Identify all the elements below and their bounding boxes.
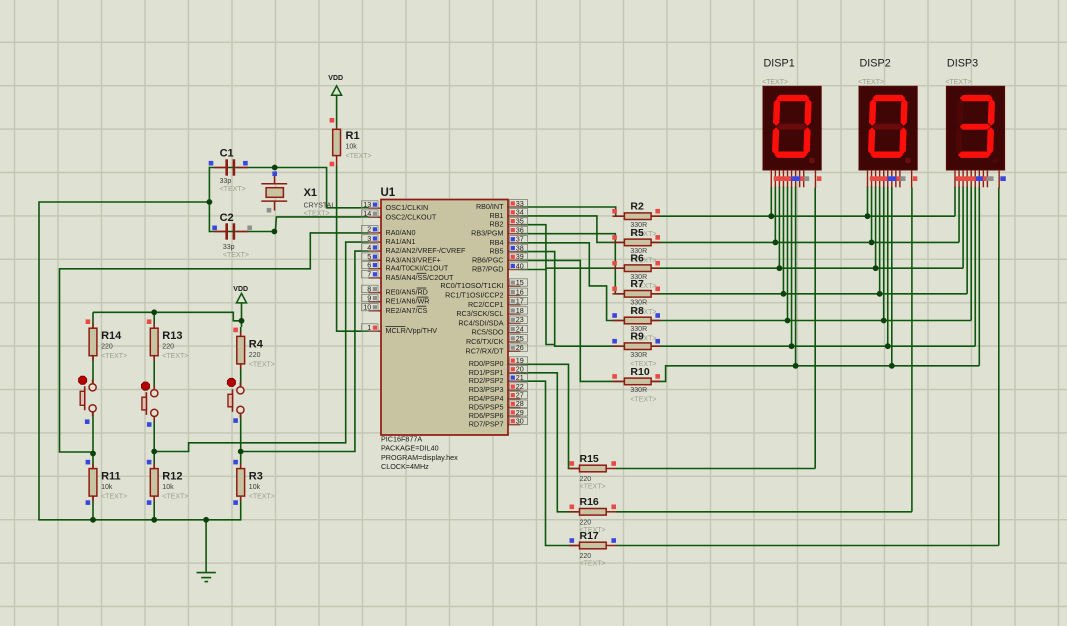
wire: DISP3 segment pin g drop [978, 187, 980, 366]
wire: RB6 pin39 to R10 [521, 260, 625, 381]
node: ground row col2 [151, 517, 157, 523]
svg-text:35: 35 [516, 217, 524, 226]
wire: DISP1 segment pin b drop [774, 187, 776, 243]
wire: DISP1 segment pin c drop [778, 187, 780, 269]
wire: DISP3 common drop to R17 row [998, 188, 1000, 546]
svg-text:RB1: RB1 [490, 211, 504, 220]
svg-text:220: 220 [249, 352, 261, 359]
node: C1/ground junction [207, 199, 213, 205]
resistor R1 10k [336, 127, 338, 130]
wire: VDD2 row to R14/R13/R4 tops [93, 312, 242, 321]
pin 1 (MCLR/Vpp/THV) left [369, 330, 382, 332]
power VDD (top, R1) [332, 86, 342, 96]
resistor R9 330R [612, 345, 624, 347]
svg-text:RB2: RB2 [490, 220, 504, 229]
svg-text:R15: R15 [580, 453, 599, 465]
svg-text:RD7/PSP7: RD7/PSP7 [469, 420, 504, 429]
node: ground row col1 [90, 517, 96, 523]
svg-text:21: 21 [516, 373, 524, 382]
wire: RB4 pin37 to R8 [521, 243, 625, 321]
wire: DISP2 segment pin b drop [871, 187, 873, 243]
svg-text:33p: 33p [223, 244, 235, 251]
svg-text:25: 25 [516, 334, 524, 343]
resistor R12 10k [153, 464, 155, 469]
svg-text:17: 17 [516, 297, 524, 306]
wire: column1 R14-button-R11 [92, 312, 94, 383]
svg-text:<TEXT>: <TEXT> [580, 561, 606, 568]
pin 13 (OSC1/CLKIN) left [369, 207, 382, 209]
svg-text:C1: C1 [220, 148, 234, 160]
resistor R5 330R [612, 241, 624, 243]
wire: DISP2 segment pin g drop [891, 187, 893, 366]
pin 28 (RD5/PSP5) right [508, 406, 521, 408]
svg-text:RC2/CCP1: RC2/CCP1 [468, 300, 504, 309]
wire: common row R17 to DISP3 [616, 545, 999, 547]
svg-text:R2: R2 [630, 201, 644, 213]
push button column 1 [89, 384, 96, 391]
wire: DISP2 segment pin a drop [867, 187, 869, 217]
svg-text:16: 16 [516, 287, 524, 296]
svg-text:<TEXT>: <TEXT> [249, 494, 275, 501]
svg-text:10k: 10k [346, 144, 358, 151]
svg-text:<TEXT>: <TEXT> [945, 79, 971, 86]
resistor R14 220 [92, 323, 94, 328]
resistor R11 10k [92, 464, 94, 469]
svg-text:PROGRAM=display.hex: PROGRAM=display.hex [381, 453, 458, 462]
pin 15 (RC0/T1OSO/T1CKI) right [508, 285, 521, 287]
pin 8 (RE0/AN5/RD) left [369, 292, 382, 294]
pin 22 (RD3/PSP3) right [508, 389, 521, 391]
node: button col2 bottom junction [151, 449, 157, 455]
svg-text:RE0/AN5/RD: RE0/AN5/RD [386, 288, 428, 297]
svg-text:MCLR/Vpp/THV: MCLR/Vpp/THV [386, 326, 438, 335]
node: VDD col3 junction [239, 318, 245, 324]
svg-text:OSC2/CLKOUT: OSC2/CLKOUT [386, 212, 437, 221]
resistor R15 220 [569, 468, 580, 470]
svg-text:18: 18 [516, 306, 524, 315]
svg-text:37: 37 [516, 235, 524, 244]
wire: segment row b (R5 output) [652, 241, 960, 243]
svg-text:RB4: RB4 [490, 238, 504, 247]
svg-text:DISP1: DISP1 [764, 58, 795, 70]
svg-text:6: 6 [367, 261, 371, 270]
svg-text:38: 38 [516, 243, 524, 252]
wire: DISP2 segment pin c drop [875, 187, 877, 269]
svg-text:RE1/AN6/WR: RE1/AN6/WR [386, 297, 430, 306]
wire: column2 R13-button-R12 [153, 312, 155, 389]
pin 20 (RD1/PSP1) right [508, 372, 521, 374]
svg-text:RD2/PSP2: RD2/PSP2 [469, 376, 504, 385]
svg-text:33: 33 [516, 199, 524, 208]
IC U1 PIC16F877A [381, 200, 508, 436]
svg-text:1: 1 [367, 323, 371, 332]
svg-text:30: 30 [516, 416, 524, 425]
svg-text:<TEXT>: <TEXT> [223, 252, 249, 259]
svg-text:330R: 330R [630, 352, 647, 359]
svg-text:PIC16F877A: PIC16F877A [381, 435, 422, 444]
svg-text:RB0/INT: RB0/INT [476, 202, 504, 211]
svg-text:<TEXT>: <TEXT> [762, 79, 788, 86]
7-segment display DISP2 [859, 86, 917, 170]
svg-text:4: 4 [367, 243, 371, 252]
svg-text:PACKAGE=DIL40: PACKAGE=DIL40 [381, 444, 439, 453]
wire: RB7 pin40 stub wire [521, 270, 555, 345]
wire: DISP2 segment pin f drop [887, 187, 889, 347]
svg-text:C2: C2 [220, 212, 234, 224]
svg-text:R8: R8 [630, 305, 644, 317]
push button column 3 [237, 387, 244, 394]
pin 5 (RA3/AN3/VREF+) left [369, 259, 382, 261]
pin 27 (RD4/PSP4) right [508, 398, 521, 400]
node: segment row g DISP2 tap [889, 363, 895, 369]
capacitor C2 33p [214, 231, 226, 233]
svg-text:RC6/TX/CK: RC6/TX/CK [466, 337, 504, 346]
wire: DISP3 segment pin f drop [974, 187, 976, 347]
DISP1 pin state indicators [774, 176, 792, 181]
svg-text:<TEXT>: <TEXT> [580, 484, 606, 491]
wire: VDD1 stem to R1 [336, 95, 338, 126]
svg-text:RC1/T1OSI/CCP2: RC1/T1OSI/CCP2 [445, 291, 503, 300]
pin 10 (RE2/AN7/CS) left [369, 310, 382, 312]
pin 35 (RB2) right [508, 224, 521, 226]
node: segment row a DISP2 tap [865, 213, 871, 219]
wire: common row R15 to DISP1 [616, 468, 815, 470]
svg-text:RC7/RX/DT: RC7/RX/DT [466, 346, 505, 355]
node: segment row e DISP1 tap [785, 318, 791, 324]
svg-text:34: 34 [516, 208, 524, 217]
pin 40 (RB7/PGD) right [508, 269, 521, 271]
svg-text:R9: R9 [630, 331, 644, 343]
svg-text:RB7/PGD: RB7/PGD [472, 265, 504, 274]
wire: segment row a (R2 output) [652, 215, 956, 217]
pin 3 (RA1/AN1) left [369, 241, 382, 243]
svg-text:RB3/PGM: RB3/PGM [471, 229, 503, 238]
resistor R3 10k [240, 464, 242, 469]
wire: RB3 pin36 to R7 [521, 234, 625, 294]
pin 6 (RA4/T0CKI/C1OUT) left [369, 268, 382, 270]
pin 25 (RC6/TX/CK) right [508, 341, 521, 343]
wire: segment row d (R7 output) [652, 293, 968, 295]
pin 14 (OSC2/CLKOUT) left [369, 216, 382, 218]
wire: ground stem [205, 520, 207, 572]
svg-text:14: 14 [363, 209, 371, 218]
pin 18 (RC3/SCK/SCL) right [508, 313, 521, 315]
node: segment row d DISP1 tap [781, 291, 787, 297]
svg-text:220: 220 [101, 344, 113, 351]
node: crystal bottom junction [272, 229, 278, 235]
wire: DISP2 common drop to R16 row [911, 188, 913, 512]
svg-text:U1: U1 [381, 187, 396, 199]
svg-text:<TEXT>: <TEXT> [162, 494, 188, 501]
svg-text:220: 220 [580, 519, 592, 526]
node: segment row d DISP2 tap [877, 291, 883, 297]
resistor R17 220 [569, 545, 580, 547]
svg-text:40: 40 [516, 261, 524, 270]
7-segment display DISP3 [946, 86, 1004, 170]
node: ground row ground stem [203, 517, 209, 523]
svg-text:RC4/SDI/SDA: RC4/SDI/SDA [458, 318, 503, 327]
wire: DISP3 segment pin a drop [954, 187, 956, 217]
wire: DISP3 segment pin e drop [970, 187, 972, 321]
wire: bottom ground row [38, 519, 241, 521]
svg-text:<TEXT>: <TEXT> [162, 353, 188, 360]
node: segment row b DISP1 tap [772, 240, 778, 246]
wire: ground branch from C1/C2 left to far-left vertical [39, 202, 209, 520]
wire: DISP1 segment pin d drop [782, 187, 784, 294]
crystal X1 [274, 172, 276, 184]
resistor R13 220 [153, 323, 155, 328]
wire: DISP2 segment pin d drop [879, 187, 881, 294]
wire: DISP1 segment pin g drop [795, 187, 797, 366]
wire: RB5 pin38 to R9 [521, 252, 625, 347]
wire: VDD2 stem [241, 303, 243, 321]
svg-text:9: 9 [367, 294, 371, 303]
svg-text:330R: 330R [630, 387, 647, 394]
pin 38 (RB5) right [508, 251, 521, 253]
pin 7 (RA5/AN4/SS/C2OUT) left [369, 277, 382, 279]
svg-text:R4: R4 [249, 338, 264, 350]
wire: DISP3 segment pin d drop [966, 187, 968, 294]
svg-text:VDD: VDD [328, 75, 343, 82]
pin 24 (RC5/SDO) right [508, 332, 521, 334]
pin 19 (RD0/PSP0) right [508, 363, 521, 365]
wire: DISP3 segment pin c drop [962, 187, 964, 269]
node: segment row f DISP1 tap [789, 343, 795, 349]
node: segment row c DISP1 tap [777, 265, 783, 271]
svg-text:R3: R3 [249, 471, 263, 483]
svg-text:220: 220 [580, 476, 592, 483]
svg-text:RC3/SCK/SCL: RC3/SCK/SCL [456, 309, 503, 318]
svg-text:26: 26 [516, 343, 524, 352]
svg-text:220: 220 [580, 553, 592, 560]
svg-text:R6: R6 [630, 253, 644, 265]
pin 33 (RB0/INT) right [508, 206, 521, 208]
node: segment row e DISP2 tap [881, 318, 887, 324]
wire: DISP1 segment pin e drop [787, 187, 789, 321]
svg-text:<TEXT>: <TEXT> [101, 494, 127, 501]
wire: RA1 (pin 3) to button column 2 [154, 242, 368, 451]
svg-text:R13: R13 [162, 330, 182, 342]
pin 34 (RB1) right [508, 215, 521, 217]
svg-text:R11: R11 [101, 471, 121, 483]
svg-text:3: 3 [367, 234, 371, 243]
svg-text:<TEXT>: <TEXT> [346, 153, 372, 160]
pin 36 (RB3/PGM) right [508, 233, 521, 235]
pin 30 (RD7/PSP7) right [508, 424, 521, 426]
svg-text:DISP2: DISP2 [860, 58, 891, 70]
wire: RA2 (pin 4) to button column 3 [241, 251, 369, 451]
svg-text:R5: R5 [630, 227, 644, 239]
wire: DISP1 segment pin f drop [791, 187, 793, 347]
wire: DISP1 common drop to R15 row [814, 188, 816, 469]
svg-text:CRYSTAL: CRYSTAL [304, 202, 336, 209]
svg-text:7: 7 [367, 270, 371, 279]
svg-text:RC5/SDO: RC5/SDO [472, 328, 504, 337]
push button column 2 [151, 390, 158, 397]
svg-text:24: 24 [516, 325, 524, 334]
svg-text:RA2/AN2/VREF-/CVREF: RA2/AN2/VREF-/CVREF [386, 246, 466, 255]
svg-text:R16: R16 [580, 496, 599, 508]
wire: RD2 pin21 to R17 [521, 381, 580, 545]
svg-text:RA1/AN1: RA1/AN1 [386, 237, 416, 246]
pin 39 (RB6/PGC) right [508, 259, 521, 261]
svg-text:R17: R17 [580, 530, 599, 542]
svg-text:RA0/AN0: RA0/AN0 [386, 228, 416, 237]
svg-text:R10: R10 [630, 366, 649, 378]
node: crystal top junction [272, 165, 278, 171]
wire: C1 left to C2 left vertical [208, 167, 210, 233]
svg-text:8: 8 [367, 284, 371, 293]
pin 21 (RD2/PSP2) right [508, 380, 521, 382]
svg-text:10: 10 [363, 303, 371, 312]
wire: RB1 pin34 to R5 [521, 216, 625, 243]
node: segment row g DISP1 tap [793, 363, 799, 369]
svg-text:CLOCK=4MHz: CLOCK=4MHz [381, 462, 429, 471]
svg-text:<TEXT>: <TEXT> [304, 210, 330, 217]
wire: column3 VDD-R4-button-R3 [241, 321, 243, 327]
node: segment row b DISP2 tap [869, 240, 875, 246]
pin 17 (RC2/CCP1) right [508, 304, 521, 306]
svg-text:<TEXT>: <TEXT> [249, 361, 275, 368]
wire: common row R16 to DISP2 [616, 511, 912, 513]
wire: RA0 (pin 2) to button column 1 [60, 233, 369, 454]
svg-text:<TEXT>: <TEXT> [101, 353, 127, 360]
pin 16 (RC1/T1OSI/CCP2) right [508, 295, 521, 297]
svg-text:R12: R12 [162, 471, 182, 483]
resistor R6 330R [612, 267, 624, 269]
node: button col3 bottom junction [238, 449, 244, 455]
wire: RD0 pin19 to R15 [521, 364, 580, 468]
svg-text:2: 2 [367, 225, 371, 234]
wire: RB0 pin33 to R2 [521, 207, 625, 216]
svg-text:10k: 10k [249, 484, 261, 491]
svg-text:OSC1/CLKIN: OSC1/CLKIN [386, 203, 429, 212]
svg-text:23: 23 [516, 315, 524, 324]
pin 23 (RC4/SDI/SDA) right [508, 322, 521, 324]
svg-text:39: 39 [516, 252, 524, 261]
svg-text:<TEXT>: <TEXT> [630, 396, 656, 403]
svg-text:36: 36 [516, 226, 524, 235]
wire: segment row c (R6 output) [652, 267, 964, 269]
svg-text:<TEXT>: <TEXT> [220, 186, 246, 193]
capacitor C1 33p [214, 167, 226, 169]
resistor R2 330R [612, 215, 624, 217]
pin 29 (RD6/PSP6) right [508, 415, 521, 417]
pin 26 (RC7/RX/DT) right [508, 350, 521, 352]
svg-text:DISP3: DISP3 [947, 58, 978, 70]
pin 2 (RA0/AN0) left [369, 232, 382, 234]
node: button col1 bottom junction [90, 451, 96, 457]
resistor R10 330R [612, 380, 624, 382]
node: segment row f DISP2 tap [885, 343, 891, 349]
svg-text:RC0/T1OSO/T1CKI: RC0/T1OSO/T1CKI [440, 281, 503, 290]
svg-text:33p: 33p [220, 178, 232, 185]
pin 37 (RB4) right [508, 242, 521, 244]
DISP2 pin state indicators [870, 176, 888, 181]
wire: segment row g (R10 output) [652, 366, 980, 382]
resistor R16 220 [569, 511, 580, 513]
svg-text:15: 15 [516, 278, 524, 287]
svg-text:VDD: VDD [233, 286, 248, 293]
wire: RD1 pin20 to R16 [521, 373, 580, 512]
svg-text:R7: R7 [630, 278, 644, 290]
wire: DISP2 segment pin e drop [883, 187, 885, 321]
svg-text:13: 13 [363, 200, 371, 209]
node: VDD row col2 junction [151, 309, 157, 315]
svg-text:R1: R1 [346, 130, 360, 142]
resistor R8 330R [612, 320, 624, 322]
wire: DISP1 segment pin a drop [770, 187, 772, 217]
svg-text:220: 220 [162, 344, 174, 351]
svg-text:<TEXT>: <TEXT> [858, 79, 884, 86]
power VDD (button columns) [237, 293, 247, 303]
wire: RB2 pin35 to R6 [521, 225, 625, 269]
ground [197, 572, 216, 574]
node: segment row a DISP1 tap [768, 213, 774, 219]
resistor R4 220 [240, 331, 242, 336]
node: segment row c DISP2 tap [873, 265, 879, 271]
wire: segment row e (R8 output) [652, 320, 972, 322]
svg-text:X1: X1 [304, 187, 317, 199]
svg-text:RE2/AN7/CS: RE2/AN7/CS [386, 306, 428, 315]
7-segment display DISP1 [763, 86, 821, 170]
svg-text:10k: 10k [162, 484, 174, 491]
resistor R7 330R [612, 293, 624, 295]
pin 4 (RA2/AN2/VREF-/CVREF) left [369, 250, 382, 252]
wire: crystal bottom to OSC2 (pin 14) [275, 217, 368, 232]
wire: C1 row to OSC1 (pin 13) [209, 168, 368, 208]
svg-text:RA4/T0CKI/C1OUT: RA4/T0CKI/C1OUT [386, 264, 449, 273]
svg-text:R14: R14 [101, 330, 122, 342]
wire: C2 row to crystal bottom [209, 231, 274, 233]
DISP3 pin state indicators [956, 176, 976, 181]
svg-text:10k: 10k [101, 484, 113, 491]
wire: DISP3 segment pin b drop [958, 187, 960, 243]
pin 9 (RE1/AN6/WR) left [369, 301, 382, 303]
svg-text:RB6/PGC: RB6/PGC [472, 255, 504, 264]
wire: segment row f (R9 output) [652, 345, 976, 347]
wire: R1 to MCLR (pin 1) [337, 166, 369, 331]
svg-text:RB5: RB5 [490, 247, 504, 256]
